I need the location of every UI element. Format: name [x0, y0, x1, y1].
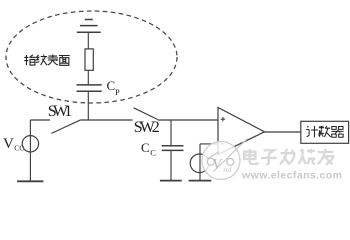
op-amp U1 comparator — [218, 108, 265, 155]
op-amp plus pin — [221, 117, 225, 121]
svg-text:C: C — [150, 147, 156, 157]
op-amp minus pin — [221, 143, 224, 145]
label V_ref (faded under watermark) — [213, 157, 233, 174]
wire C_P to bus node — [87, 91, 89, 120]
wire C_C to ground — [170, 150, 172, 180]
wire op-amp minus to V_ref — [200, 144, 218, 181]
watermark logo circle — [202, 139, 248, 180]
finger electrode symbol (3-bar plate) — [77, 20, 101, 49]
label V_CC — [3, 136, 24, 152]
label C_P — [107, 78, 121, 97]
ground bar V_ref — [189, 180, 212, 182]
label C_C — [141, 140, 156, 157]
switch SW1 (open blade) — [51, 120, 80, 134]
wire V_CC riser and drop — [30, 120, 50, 181]
ground bar C_C — [160, 180, 182, 182]
svg-text:V: V — [3, 136, 14, 152]
label 计数器 (counter) — [306, 126, 343, 138]
svg-text:C: C — [141, 140, 150, 155]
counter box — [301, 121, 349, 143]
resistor (finger contact resistance) — [85, 49, 93, 70]
label SW1 — [48, 103, 73, 120]
voltage source V_ref — [190, 154, 209, 173]
label 指纹表面 (fingerprint surface) — [24, 55, 69, 66]
fingerprint surface dashed ellipse — [6, 11, 177, 103]
wire bus SW2 to op-amp — [158, 119, 218, 121]
label SW2 — [134, 119, 160, 136]
wire bus to C_C — [170, 120, 172, 146]
wire op-amp output to counter — [265, 131, 301, 133]
svg-text:www.elecfans.com: www.elecfans.com — [241, 170, 342, 182]
watermark text 电子发烧友 — [244, 149, 333, 165]
capacitor C_C — [162, 146, 184, 151]
switch SW2 (open blade) — [134, 108, 158, 120]
svg-text:ref: ref — [223, 165, 232, 174]
wire bus SW1 to SW2 — [81, 119, 133, 121]
watermark text www.elecfans.com — [241, 170, 342, 182]
svg-text:SW2: SW2 — [134, 119, 160, 136]
svg-text:SW1: SW1 — [48, 103, 73, 120]
svg-text:C: C — [107, 78, 116, 93]
ground bar V_CC — [17, 180, 43, 182]
wire resistor to C_P — [87, 70, 89, 85]
capacitor C_P — [77, 85, 102, 91]
voltage source V_CC — [22, 136, 38, 152]
svg-text:P: P — [115, 87, 120, 97]
